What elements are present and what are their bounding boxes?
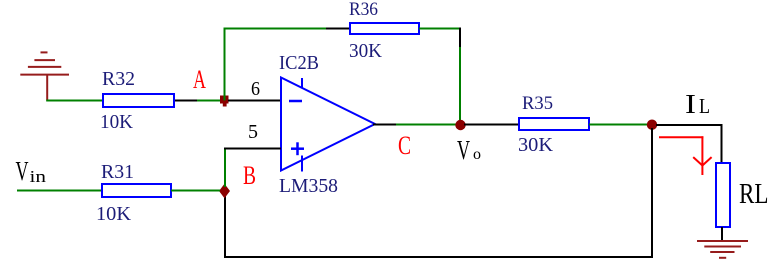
wire feedback top (black) <box>326 28 349 30</box>
svg-text:in: in <box>30 167 47 186</box>
svg-text:R36: R36 <box>349 0 378 20</box>
svg-text:10K: 10K <box>96 203 132 225</box>
op-amp U1 triangle <box>281 78 375 171</box>
svg-text:30K: 30K <box>349 40 383 62</box>
node C junction <box>455 120 465 130</box>
wire R31 to node B <box>171 190 220 192</box>
svg-text:6: 6 <box>251 78 260 100</box>
svg-text:30K: 30K <box>518 134 554 156</box>
wire right corner down to node C (green) <box>459 47 461 123</box>
svg-text:L: L <box>699 94 710 118</box>
svg-text:V: V <box>16 156 29 186</box>
wire node D to RL branch <box>656 124 723 126</box>
svg-text:B: B <box>243 161 256 190</box>
svg-text:5: 5 <box>248 121 258 143</box>
wire right corner down (black) <box>459 28 461 48</box>
label Vin <box>16 156 47 186</box>
wire node B up to pin 5 corner <box>224 148 226 188</box>
label Vo <box>457 135 481 165</box>
wire bottom feedback <box>224 256 653 258</box>
node D junction <box>647 120 657 130</box>
wire RL to ground <box>721 227 723 241</box>
svg-text:C: C <box>398 131 411 160</box>
wire R32 to node A (green part) <box>197 100 221 102</box>
svg-text:V: V <box>457 135 470 165</box>
svg-text:I: I <box>685 89 696 119</box>
node B junction <box>219 184 230 198</box>
wire op-amp output to node C (green) <box>396 124 457 126</box>
svg-text:R31: R31 <box>101 161 134 183</box>
resistor R31 <box>102 184 171 197</box>
current arrow IL (red) <box>659 136 712 175</box>
wire Vin to R31 <box>17 190 102 192</box>
wire node A to pin 6 <box>228 100 281 102</box>
wire node D down <box>651 128 653 258</box>
wire node A up to feedback <box>224 28 226 101</box>
svg-text:10K: 10K <box>100 111 134 133</box>
wire pin 5 <box>224 148 281 150</box>
op-amp plus input symbol <box>291 142 304 155</box>
wire R35 to node D <box>589 124 648 126</box>
resistor R35 <box>519 118 589 130</box>
svg-text:RL: RL <box>739 178 769 210</box>
resistor R36 <box>350 23 419 34</box>
ground GND1 <box>20 52 69 100</box>
op-amp top power tick <box>301 78 303 88</box>
node A junction <box>220 96 229 107</box>
wire op-amp output (black) <box>373 124 396 126</box>
wire node C to R35 <box>464 124 519 126</box>
wire R32 to node A (black part) <box>175 100 197 102</box>
wire RL branch down <box>721 124 723 163</box>
wire R36 to right corner <box>419 28 461 30</box>
svg-text:R35: R35 <box>522 93 553 114</box>
svg-text:IC2B: IC2B <box>279 52 319 74</box>
op-amp minus input symbol <box>289 100 302 103</box>
wire GND1 to R32 <box>46 100 102 102</box>
svg-text:LM358: LM358 <box>279 175 338 197</box>
wire node B down <box>224 195 226 258</box>
resistor RL <box>716 163 730 227</box>
svg-text:o: o <box>473 146 481 163</box>
ground GND2 <box>697 241 748 258</box>
op-amp bottom power tick <box>301 156 303 172</box>
svg-text:A: A <box>193 65 206 94</box>
resistor R32 <box>103 94 174 107</box>
wire feedback top (green) <box>224 28 327 30</box>
svg-text:R32: R32 <box>102 68 135 90</box>
label IL <box>685 89 710 119</box>
